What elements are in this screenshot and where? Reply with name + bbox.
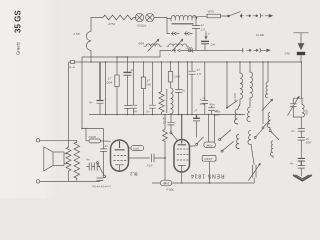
band selector coil D1 arrow (148, 39, 159, 51)
svg-text:005: 005 (215, 113, 220, 117)
cap C12 plates (208, 106, 215, 115)
speaker leads (64, 154, 69, 164)
svg-text:4n: 4n (290, 162, 294, 166)
switch S2 blade (227, 62, 238, 108)
cap C-mains2 electrolytic (201, 40, 209, 42)
node bus j1 (85, 128, 87, 130)
wire screen feed (82, 128, 104, 130)
bottom return wire (152, 182, 254, 184)
tube RENS1834 cathode (178, 166, 186, 184)
tube BL2 grids (114, 155, 127, 157)
svg-text:J/18: J/18 (147, 164, 153, 168)
cap C16 below rail (193, 115, 200, 119)
speaker terminal T1 (36, 139, 39, 142)
resistor R3 box (143, 62, 145, 77)
svg-text:15M: 15M (174, 75, 180, 79)
connector jack pair J3 lower mains (173, 49, 184, 53)
antenna terminal block 240 (297, 52, 305, 55)
cap C9 plates (175, 62, 182, 115)
wire drop to speaker jacks (167, 19, 170, 34)
switch S6 (222, 141, 233, 151)
lower mains wire (183, 49, 242, 51)
svg-text:48a: 48a (210, 103, 215, 107)
svg-text:M-RE: M-RE (256, 33, 265, 37)
cap C-mains1 plates (192, 16, 200, 51)
stub to grid resistor (86, 129, 89, 141)
switch S-mains (221, 12, 242, 16)
earth arrow symbol (293, 175, 312, 181)
RF coil L5 (262, 62, 264, 124)
svg-text:Dkl: Dkl (211, 43, 216, 47)
svg-text:G100: G100 (233, 93, 237, 101)
svg-text:35 GS: 35 GS (14, 10, 23, 33)
svg-text:240: 240 (284, 52, 290, 56)
mains lead arrow lower (263, 49, 270, 52)
choke core bar (172, 23, 194, 25)
band selector coil D2 (167, 44, 189, 46)
wire v105 (105, 62, 107, 115)
fuse Si inline box (71, 61, 75, 64)
svg-text:BL2: BL2 (129, 172, 137, 177)
svg-text:4n: 4n (89, 101, 93, 105)
switch S7 (263, 120, 271, 128)
dial lamp La2 (146, 13, 154, 21)
dial lamp La1 (135, 13, 143, 21)
band coil A1 (265, 62, 268, 98)
output transformer secondary zigzag (66, 147, 71, 181)
tube RENS1834 anode (178, 115, 187, 145)
svg-text:4n: 4n (86, 158, 90, 162)
svg-text:J40a: J40a (206, 143, 213, 147)
pill Uwlt (129, 147, 132, 149)
tone cap C13b (92, 163, 100, 171)
band coil A2 (267, 113, 270, 131)
switch S6b (255, 129, 262, 137)
wire v187 (187, 62, 189, 115)
trimmer arrow (249, 163, 261, 180)
tuned circuit feed (293, 62, 303, 128)
wire choke to resistor W79 (193, 16, 207, 17)
tube BL2 anode (115, 141, 125, 150)
cap C21 (298, 166, 305, 177)
svg-text:5n: 5n (146, 110, 150, 114)
svg-text:+: + (105, 97, 107, 101)
cap C8 plates (149, 62, 156, 115)
band selector coil D1 (144, 44, 163, 46)
voltage arrow annotation (205, 32, 207, 39)
switch S5 (220, 130, 231, 140)
svg-text:A~a: A~a (68, 65, 75, 69)
connector plug socket P1 top (241, 14, 244, 19)
cap C14 on speaker return (97, 178, 104, 181)
trimmer capacitor CT1 (252, 165, 256, 178)
cap C11 plates (202, 62, 209, 115)
svg-text:J7: J7 (194, 109, 198, 113)
resistor W79 box (207, 14, 221, 18)
connector jack pair J2 (184, 32, 193, 36)
mains choke L-choke loops (167, 15, 197, 21)
main HT bus (69, 61, 302, 63)
cap C6 plates (130, 62, 137, 115)
antenna symbol (294, 33, 309, 50)
potentiometer R4 zigzag (159, 62, 164, 115)
wire left HT drop (68, 62, 70, 147)
trimmer arrow CT2 (288, 96, 300, 115)
tone switch S3 (103, 175, 105, 177)
cap C4 plates (117, 57, 128, 72)
IF winding C1 (236, 134, 239, 149)
junction dots bus (81, 56, 302, 184)
cap C7 electrolytic (97, 62, 104, 101)
tone cap C13 (87, 163, 92, 171)
band selector coil D2 arrow (172, 39, 183, 51)
cap C18 (298, 129, 305, 138)
resistor R-drop zigzag (103, 15, 137, 20)
pentode RENS1834 envelope (174, 140, 190, 173)
IF winding B2 (247, 103, 250, 122)
pill DK6T (202, 155, 216, 161)
svg-text:050: 050 (305, 110, 309, 115)
heater winding L-heat (86, 18, 103, 63)
loudspeaker LS (53, 152, 64, 166)
svg-text:D408: D408 (89, 135, 97, 139)
switch S9 grid (171, 133, 177, 140)
band coil A3 (270, 141, 273, 158)
tube BL2 cathode (115, 165, 124, 171)
connector plug socket P4 lower (260, 48, 263, 53)
svg-text:4-0BL: 4-0BL (166, 188, 175, 192)
svg-text:4n: 4n (291, 129, 295, 133)
svg-text:Uwlt: Uwlt (133, 146, 139, 150)
switch S8 (270, 131, 279, 140)
IF winding C2 (248, 130, 254, 165)
trimmer cap CT2 (290, 98, 297, 113)
pill J40a loop (209, 115, 215, 143)
cap C20 (298, 158, 305, 165)
output tube BL2 envelope (111, 140, 129, 171)
connector plug socket P2 top (260, 14, 264, 19)
svg-text:7: 7 (208, 32, 210, 36)
coil core line (166, 89, 168, 113)
wire speaker bottom (40, 180, 100, 182)
svg-text:1,8: 1,8 (197, 72, 202, 76)
svg-text:2n: 2n (181, 89, 186, 93)
upper rail with jog (82, 51, 171, 129)
mains lead arrow top (265, 14, 273, 17)
speaker terminal T2 (36, 180, 39, 183)
svg-text:4 TB: 4 TB (73, 32, 80, 36)
tube RENS1834 grids (177, 148, 189, 150)
svg-text:12: 12 (163, 120, 167, 124)
cap C15 vertical plates (151, 154, 165, 162)
wire lamp to junction (154, 18, 167, 19)
svg-text:4/54: 4/54 (138, 42, 144, 46)
IF winding B1 (234, 104, 240, 125)
svg-text:UH3: UH3 (163, 182, 169, 186)
svg-text:DK6T: DK6T (205, 157, 214, 161)
grid cap wire v103 (100, 129, 107, 176)
svg-text:J7: J7 (202, 96, 206, 100)
output transformer primary zigzag (74, 140, 80, 181)
plug pin arrows top (246, 15, 258, 17)
tuning coil L10 (302, 98, 305, 117)
svg-text:005: 005 (306, 141, 311, 145)
resistor R5 box (170, 62, 172, 72)
chassis rail (89, 114, 245, 116)
trimmer link wire (253, 178, 255, 184)
svg-text:Graetz: Graetz (16, 42, 21, 55)
cap C10 plates (189, 62, 196, 115)
svg-text:RENS 1834: RENS 1834 (190, 173, 224, 179)
svg-text:48: 48 (134, 110, 138, 114)
svg-text:V(2)2a: V(2)2a (137, 24, 147, 28)
resistor D408 oval (89, 139, 101, 143)
pill UH3 (161, 180, 172, 186)
wave switch arrow (262, 99, 273, 110)
coupling wire tube1 (129, 157, 150, 159)
oscillator coil L4 (250, 62, 253, 103)
connector jack pair J1 (171, 32, 180, 36)
plug pin arrows lower (246, 49, 258, 51)
svg-text:A752: A752 (107, 22, 116, 26)
oscillator coil L3 (240, 62, 243, 104)
AF coil L2 (171, 88, 174, 115)
cap C17 grid coupling (168, 115, 175, 133)
resistor R2 box (116, 57, 118, 75)
svg-text:U+4-0V+4-0a: U+4-0V+4-0a (92, 185, 111, 189)
svg-text:40a: 40a (200, 102, 205, 106)
cap C5 plates (124, 106, 131, 115)
svg-text:1,8: 1,8 (201, 28, 206, 32)
switch S4 (190, 137, 204, 146)
svg-text:W79: W79 (208, 10, 215, 14)
node j2 (164, 157, 166, 159)
cap C19 (298, 138, 305, 159)
svg-text:Dkl: Dkl (147, 83, 152, 87)
svg-text:4n: 4n (105, 144, 109, 148)
svg-text:D04: D04 (107, 81, 113, 85)
connector plug socket P3 lower (242, 48, 244, 53)
resistor R6 zigzag vertical (163, 115, 168, 184)
connector jack J4 (188, 49, 191, 52)
wire speaker top (40, 139, 77, 141)
